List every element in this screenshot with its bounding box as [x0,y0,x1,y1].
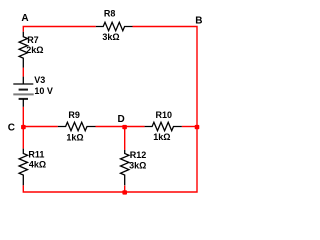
junction dot node C [21,125,26,129]
svg-text:3kΩ: 3kΩ [129,160,146,170]
svg-text:1kΩ: 1kΩ [66,133,83,143]
svg-text:R9: R9 [68,110,80,120]
svg-text:A: A [21,13,28,24]
svg-text:R11: R11 [28,150,44,160]
svg-text:V3: V3 [34,75,45,85]
junction dot right rail mid [195,125,200,129]
wire node D down to R12 [124,127,126,150]
resistor R12 [121,150,129,185]
resistor R11 [19,149,27,186]
resistor R7 [19,32,27,68]
wire R7 to battery [22,68,24,77]
wire R10 to right rail [182,126,197,128]
battery V3 lead top [22,77,24,84]
resistor R10 [145,122,182,130]
wire R12 to bottom rail [124,186,126,193]
svg-text:R7: R7 [27,35,39,45]
battery V3 plate 2 short [19,89,28,91]
battery V3 lead bottom [22,99,24,107]
svg-text:10 V: 10 V [34,86,53,96]
battery V3 plate 1 long [13,83,33,85]
wire node D to R10 [125,126,145,128]
svg-text:1kΩ: 1kΩ [153,132,170,142]
svg-text:2kΩ: 2kΩ [26,45,43,55]
svg-text:B: B [195,15,202,26]
wire right rail lower half [125,127,197,193]
wire bottom-left [23,185,124,192]
wire node C to R11 [22,127,24,149]
wire R9 to node D [96,126,125,128]
svg-text:C: C [8,123,15,134]
svg-text:D: D [118,114,125,125]
battery V3 plate 3 long gray [13,93,33,95]
svg-text:R12: R12 [130,150,147,160]
wire top-right from R8 to node B corner [133,27,198,127]
svg-text:3kΩ: 3kΩ [102,32,119,42]
svg-text:R8: R8 [104,8,116,18]
wire top-left from node A corner to R8 [23,27,96,32]
wire node C to R9 [23,126,58,128]
junction dot node D [122,125,127,129]
svg-text:4kΩ: 4kΩ [29,159,46,169]
battery V3 plate 4 short [19,98,28,100]
resistor R8 [96,22,133,30]
svg-text:R10: R10 [156,110,173,120]
resistor R9 [58,122,96,130]
junction dot bottom rail [122,190,127,194]
wire battery to node C [22,107,24,127]
